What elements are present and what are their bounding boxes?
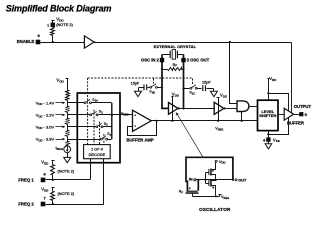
- label RF inset: [179, 189, 184, 194]
- wire enable to gate: [230, 43, 238, 104]
- svg-text:P: P: [212, 169, 214, 173]
- power VDD level shifter: [268, 76, 278, 100]
- wire FREQ1: [46, 179, 91, 181]
- wire tap arrow 2: [56, 114, 66, 117]
- node junction Rf left: [161, 68, 163, 70]
- label tap VDD-3.8V: [36, 137, 55, 143]
- svg-text:ENABLE: ENABLE: [17, 39, 35, 44]
- node junction S1C: [182, 87, 184, 89]
- block switch box: [77, 93, 120, 163]
- node junction out-loop: [232, 179, 234, 181]
- crystal Y1: [163, 50, 184, 60]
- buffer U1 (enable buffer): [84, 36, 95, 48]
- node FREQ 2 label: [18, 202, 34, 207]
- wire FREQ2: [46, 204, 104, 206]
- switch S1B: [149, 84, 162, 95]
- svg-text:(NOTE 2): (NOTE 2): [56, 22, 73, 27]
- svg-text:VDD: VDD: [41, 160, 49, 166]
- svg-text:BUFFER AMP: BUFFER AMP: [126, 138, 154, 143]
- svg-text:OUTPUT: OUTPUT: [294, 104, 312, 109]
- wire row4 in: [78, 139, 101, 141]
- power VDD (pin 1) label: [56, 16, 73, 26]
- wire callout diagonal: [176, 112, 203, 157]
- pin 6 FREQ1: [41, 171, 47, 182]
- node junction enable-pullup: [52, 41, 54, 43]
- node A2 output: [223, 107, 225, 109]
- svg-text:OSC IN 2: OSC IN 2: [141, 58, 160, 63]
- node VREG inset wire: [193, 195, 222, 198]
- switch S2: [90, 110, 103, 116]
- svg-text:IBIAS: IBIAS: [56, 145, 64, 151]
- wire row1 out: [92, 102, 112, 104]
- wire control S4 dashed: [103, 134, 105, 145]
- svg-text:VSS: VSS: [273, 137, 280, 143]
- svg-text:VDD: VDD: [269, 76, 277, 82]
- label EXTERNAL CRYSTAL: [154, 44, 197, 49]
- pin 8 ENABLE: [36, 33, 41, 44]
- pin 1: [47, 23, 55, 28]
- node junction in-gates: [204, 179, 206, 181]
- svg-text:RF: RF: [179, 189, 184, 194]
- wire tap arrow 4: [56, 138, 66, 141]
- label tap VDD-3.0V: [36, 124, 55, 130]
- svg-text:7: 7: [43, 196, 46, 201]
- wire ENABLE net right: [95, 42, 292, 44]
- node junction rail-A1: [171, 120, 173, 122]
- power VDD inset: [215, 159, 225, 165]
- node junction mux out: [111, 114, 113, 116]
- wire mux bus: [111, 103, 113, 139]
- gate U2 AND: [237, 101, 249, 112]
- node ENABLE label: [17, 39, 35, 44]
- resistor R-freq1 pull-up: [51, 161, 55, 180]
- label VREG node: [121, 111, 129, 116]
- label OUTPUT: [294, 104, 312, 109]
- svg-text:VREG: VREG: [221, 195, 229, 200]
- resistor R-freq2 pull-up: [51, 188, 55, 205]
- svg-text:3 OSC OUT: 3 OSC OUT: [187, 58, 210, 63]
- amplifier A2: [214, 102, 224, 114]
- wire control bus dashed horizontal: [88, 77, 193, 79]
- ground VSS: [265, 142, 272, 150]
- svg-text:FREQ 2: FREQ 2: [18, 202, 34, 207]
- svg-text:SHIFTER: SHIFTER: [259, 113, 276, 118]
- capacitor C1 15pF: [131, 82, 150, 91]
- node junction rail-gate: [241, 120, 243, 122]
- svg-text:VDD: VDD: [219, 159, 226, 165]
- wire tap 4 to switch box: [68, 139, 78, 141]
- svg-text:Simplified Block Diagram: Simplified Block Diagram: [6, 3, 112, 13]
- power VDD freq1 pullup: [41, 160, 54, 166]
- svg-text:DECODE: DECODE: [89, 152, 106, 157]
- ground C1: [135, 88, 142, 97]
- svg-text:OSCILLATOR: OSCILLATOR: [199, 207, 231, 212]
- svg-text:S3: S3: [104, 122, 108, 127]
- pin 7 FREQ2: [41, 196, 47, 207]
- svg-text:1: 1: [47, 23, 50, 28]
- wire control S3 dashed: [99, 122, 101, 145]
- svg-text:8: 8: [37, 33, 40, 38]
- svg-text:S4: S4: [107, 132, 111, 137]
- capacitor C2 15pF: [202, 80, 214, 91]
- switch S1C: [184, 85, 202, 96]
- node A1 output: [178, 107, 180, 109]
- svg-text:BUFFER: BUFFER: [287, 120, 304, 125]
- switch S3: [96, 122, 108, 128]
- wire tap 1 to switch box: [68, 102, 78, 104]
- pin 5 OUTPUT: [294, 112, 308, 117]
- wire row3 in: [78, 126, 96, 128]
- svg-text:15pF: 15pF: [202, 80, 211, 84]
- node OUT terminal: [235, 178, 247, 183]
- svg-text:S1B: S1B: [149, 90, 155, 95]
- wire row1 in: [78, 102, 85, 104]
- node junction VSS: [267, 133, 269, 135]
- wire IN row: [196, 179, 233, 181]
- label OSCILLATOR: [199, 207, 231, 212]
- wire buffer to VSS: [269, 118, 289, 135]
- svg-text:EXTERNAL CRYSTAL: EXTERNAL CRYSTAL: [154, 44, 197, 49]
- svg-text:6: 6: [43, 171, 46, 176]
- label NOTE 2 freq1: [58, 168, 75, 173]
- svg-text:4: 4: [263, 137, 266, 142]
- node junction osc-out: [182, 107, 184, 109]
- svg-text:IN: IN: [189, 177, 193, 182]
- svg-text:VREG: VREG: [121, 111, 129, 116]
- node junction feedback: [156, 120, 158, 122]
- pin 2 OSC IN: [141, 58, 164, 63]
- svg-text:VDD - 3.0V: VDD - 3.0V: [36, 124, 55, 130]
- wire mux out to buffer amp: [112, 114, 133, 116]
- svg-text:VDD - 2.2V: VDD - 2.2V: [36, 112, 55, 118]
- label tap VDD-1.4V: [36, 100, 55, 106]
- wire gate to level shifter: [249, 106, 258, 108]
- node junction rail-A2: [217, 120, 219, 122]
- transistor Q1 PMOS: [208, 163, 215, 180]
- svg-text:VDD: VDD: [41, 186, 49, 192]
- switch S1A: [84, 98, 98, 104]
- label BUFFER: [287, 120, 304, 125]
- wire shifter to VSS: [268, 131, 270, 138]
- node junction freq2 pullup: [52, 203, 54, 205]
- node junction out-drains: [215, 179, 217, 181]
- wire control S2 dashed: [93, 110, 95, 145]
- resistor ladder R2-R6: [66, 79, 70, 147]
- amplifier A1: [169, 103, 179, 115]
- svg-text:VDD - 1.4V: VDD - 1.4V: [36, 100, 55, 106]
- svg-text:FREQ 1: FREQ 1: [18, 178, 34, 183]
- op-amp U3 BUFFER AMP: [133, 110, 152, 131]
- wire row2 in: [78, 114, 90, 116]
- power VDD amp A1: [172, 92, 180, 121]
- switch S4: [100, 132, 111, 140]
- label VREG rail: [215, 127, 223, 132]
- node junction enable-gate: [229, 41, 231, 43]
- svg-text:OUT: OUT: [238, 178, 247, 183]
- wire tap 3 to switch box: [68, 126, 78, 128]
- svg-text:N: N: [212, 185, 214, 189]
- ground C2: [210, 89, 217, 97]
- ground IBIAS: [64, 153, 71, 163]
- node FREQ 1 label: [18, 178, 34, 183]
- transistor Q2 NMOS: [208, 180, 215, 197]
- node junction S1B: [161, 86, 163, 88]
- wire tap arrow 1: [56, 102, 66, 105]
- wire OSC IN vertical: [162, 54, 169, 108]
- svg-text:S1C: S1C: [189, 91, 195, 96]
- wire OSC OUT vertical: [183, 54, 185, 108]
- pin 4 VSS: [263, 137, 280, 143]
- resistor RF (crystal feedback): [163, 63, 184, 71]
- wire oscillator feedback loop: [186, 157, 233, 190]
- block 1 OF 4 DECODE: [84, 145, 111, 159]
- node junction Rf right: [182, 68, 184, 70]
- svg-text:VDD - 3.8V: VDD - 3.8V: [36, 137, 55, 143]
- current source IBIAS: [56, 145, 71, 153]
- svg-text:P: P: [189, 186, 191, 190]
- wire control S1C dashed: [192, 79, 194, 85]
- node junction freq1 pullup: [52, 179, 54, 181]
- wire VDD to output buffer: [269, 94, 289, 111]
- label tap VDD-2.2V: [36, 112, 55, 118]
- label VREG inset: [221, 195, 229, 200]
- wire A1 to A2: [179, 108, 215, 110]
- label NOTE 2 freq2: [58, 191, 75, 196]
- block LEVEL SHIFTER: [258, 100, 279, 130]
- pin 3 OSC OUT: [181, 58, 209, 63]
- wire row2 out: [99, 114, 121, 116]
- title text: [6, 3, 112, 13]
- wire shifter to buffer: [279, 114, 285, 116]
- wire tap 2 to switch box: [68, 114, 78, 116]
- wire ENABLE to buffer U1: [41, 42, 85, 44]
- wire gate bottom stub: [241, 112, 243, 121]
- wire tap arrow 3: [56, 126, 66, 129]
- node junction in-rf: [197, 179, 199, 181]
- wire FREQ2 riser: [103, 159, 105, 205]
- svg-text:(NOTE 2): (NOTE 2): [58, 191, 75, 196]
- wire row3 out: [103, 126, 112, 128]
- wire row4 out: [108, 139, 112, 141]
- svg-text:5: 5: [305, 112, 308, 117]
- node junction VDD branch: [267, 92, 269, 94]
- wire A2 to gate: [225, 108, 238, 110]
- label BUFFER AMP: [126, 138, 154, 143]
- node IN terminal: [189, 177, 196, 182]
- wire feedback U3: [128, 121, 157, 136]
- svg-text:VREG: VREG: [215, 127, 223, 132]
- svg-text:(NOTE 2): (NOTE 2): [58, 168, 75, 173]
- wire FREQ1 riser: [90, 159, 92, 180]
- power VDD ladder: [56, 77, 68, 83]
- wire gate spine: [206, 173, 209, 184]
- wire VREG rail: [152, 120, 258, 122]
- svg-text:15pF: 15pF: [131, 82, 140, 86]
- power VDD amp A2: [217, 92, 228, 120]
- svg-text:VDD: VDD: [220, 92, 228, 98]
- resistor R-enable pull-up: [51, 21, 55, 43]
- buffer U4 output: [284, 108, 293, 120]
- svg-text:S2: S2: [99, 110, 103, 115]
- power VDD freq2 pullup: [41, 186, 54, 192]
- svg-text:S1A: S1A: [92, 98, 98, 103]
- wire control S1A dashed riser: [87, 78, 89, 145]
- wire enable to output buffer: [291, 43, 293, 113]
- wire control S1B dashed: [153, 79, 155, 84]
- svg-text:VDD: VDD: [56, 77, 64, 83]
- transistor RF pass gate: [186, 180, 199, 197]
